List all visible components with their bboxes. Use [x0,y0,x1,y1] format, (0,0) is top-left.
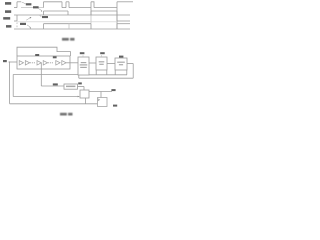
wire feedback run y78.2 [79,77,133,79]
annotation 1405 label [20,23,26,25]
annotation pointer row3 [26,18,30,20]
flip-flop clock wedge [98,99,100,101]
leader label 205 [101,55,103,57]
waveform row1 low 69-91 [69,7,91,9]
node CK input label [3,60,7,62]
waveform row2 falling edge x68 [67,11,69,15]
signal label row3 [3,17,10,20]
phase detector block U204 [78,57,89,75]
ellipsis dashes 2 [50,62,53,64]
waveform row1 low 62-66 [62,7,66,9]
delay line outer box notch [17,47,71,56]
waveform row1 rising edge x117 [116,2,118,29]
label 205 above charge pump [100,52,105,54]
low pass filter block U206 [115,58,127,70]
waveform row1 high blip 17-21 [17,1,21,3]
wire mux input run y96.5 [13,96,78,98]
signal label row2 [5,10,11,13]
waveform row3 rising edge x17 [16,15,18,21]
signal label row4 [6,25,11,28]
annotation 1405 leader arrow [27,25,31,27]
junction dot input branch [9,61,10,62]
wire selector bottom stub [85,98,87,104]
stub charge pump left [95,70,97,75]
wire stub B2 out [30,62,31,64]
annotation 1404 label [42,16,48,18]
waveform row4 high 117-130 [117,23,130,25]
caption FIG. 35 [60,113,73,116]
waveform row2 falling edge x117 [116,11,118,15]
waveform row4 marker x69 [68,24,70,29]
waveform row1 low segment [14,7,17,9]
signal label row1 [5,2,11,5]
waveform row3 low stub 14-17 [14,20,17,22]
caption FIG. 34 [62,38,75,41]
ellipsis dashes 1 [32,62,35,64]
label 211 right of flip-flop [113,105,117,107]
arrowhead into selector [78,96,80,98]
waveform row1 edge x43.5 [43,2,45,8]
wire selector top vertical [83,87,85,91]
wire low pass filter output [127,63,133,65]
waveform row1 falling edge x69 [68,2,70,8]
label 204 above phase detector [80,52,85,54]
waveform row1 high 43.5-62 [44,1,63,3]
label 201 on delay box top [35,54,39,56]
stub low pass filter right [126,70,128,75]
label 210 at selector output [111,89,115,91]
waveform row4 high 43.5-91 [44,23,92,25]
wire stub B4 out [48,62,50,64]
waveform row1 low 21-43.5 [21,7,44,9]
wire phase detector to charge pump [89,62,96,64]
label 206 above low pass filter [119,56,123,58]
wire feedback left vertical [12,75,14,97]
wire delay output to phase detector [71,62,79,64]
shared baseline y15 (row2 low / row3 high) [14,14,130,16]
label 202 on delay box top [53,56,57,58]
wire reference branch down [9,62,11,104]
wire selector output run y91.5 [89,91,112,93]
waveform row2 rising edge x91 [90,11,92,15]
buffer B2 [25,61,29,65]
annotation 1403 label [33,6,39,8]
buffer B6 [62,61,66,65]
annotation 1404 leader arrow [40,15,42,16]
selector box U210 [80,90,89,98]
waveform row1 high 66-69 [66,1,69,3]
waveform row4 baseline y29 [14,28,130,30]
wire B6 to box edge [66,62,70,64]
delay line box U201 [17,56,70,69]
label 213 on tap wire [53,83,58,85]
waveform row3 falling edge x117 [116,15,118,21]
buffer B5 [56,61,60,65]
charge pump block U205 [96,57,107,70]
waveform row3 low 117-130 [117,20,130,22]
leader label 204 [82,55,84,57]
label 1407 above control box output [78,82,82,84]
annotation 1402 label [26,3,32,5]
waveform row1 falling edge x62 [61,2,63,8]
low pass filter block text [117,62,125,66]
waveform row1 blip edge x91 [90,2,92,15]
waveform row1 high 117-133 [117,1,133,3]
wire tap run to control box [41,85,64,87]
waveform row2 rising edge x43.5 [43,11,45,15]
charge pump block text [99,61,105,65]
waveform row1 low 94-117 [94,7,117,9]
wire control box output [78,86,85,88]
annotation 1403 leader arrow [39,9,42,11]
waveform row3 faint baseline [17,21,117,23]
wire input to delay line [9,61,18,63]
wire delayed input run y74.5 [13,74,78,76]
wire tap down from chain [40,63,42,86]
waveform row4 marker dash x17 [16,23,18,28]
wire feedback right vertical [132,64,134,79]
wire charge pump to low pass filter [107,63,115,65]
stub low pass filter left [114,70,116,75]
waveform row2 high 43.5-68 [44,10,69,12]
stub charge pump right [106,70,108,75]
annotation 1402 leader [22,2,26,4]
waveform row1 rising edge x66 [65,2,67,8]
wire clock drop to flip-flop [100,92,102,98]
waveform row1 rising edge x17 [16,2,18,8]
flip-flop box U211 [98,98,108,107]
waveform row4 rising edge x43.5 [43,24,45,29]
buffer B3 [37,61,41,65]
waveform row1 blip top 91-94 [91,2,94,8]
phase detector block text [80,62,88,68]
time marker x91 lower continuation [90,15,92,24]
control box text [66,86,75,88]
waveform row4 rising edge x117 [116,24,118,29]
wire feedback up into phase detector [78,75,80,78]
wire reference bottom run [10,103,98,105]
waveform row2 high 91-117 [91,10,117,12]
buffer B4 [43,61,47,65]
control box U214 [64,84,78,89]
buffer B1 [19,61,23,65]
waveform row4 falling edge x91 [90,24,92,29]
bus wire under charge pump [89,74,127,76]
